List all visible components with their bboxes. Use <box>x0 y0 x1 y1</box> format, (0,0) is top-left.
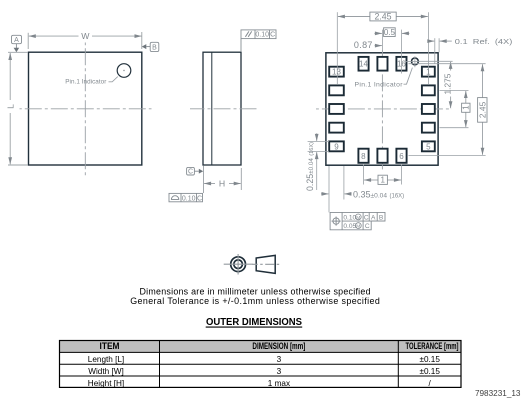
top-left extension line (square top edge) <box>8 51 28 53</box>
side view horizontal centerline <box>190 108 258 110</box>
drawing number 7983231_13 <box>475 389 521 398</box>
datum A symbol <box>12 35 22 52</box>
L dimension text <box>6 104 16 109</box>
pad 2 <box>422 85 435 95</box>
svg-text:TOLERANCE [mm]: TOLERANCE [mm] <box>406 341 459 351</box>
0.25 dimension arrows <box>316 133 318 190</box>
svg-text:L: L <box>6 104 16 109</box>
pad 15 <box>377 57 387 71</box>
0.87 dimension arrow <box>375 45 382 47</box>
svg-text:16: 16 <box>397 60 406 69</box>
datum C symbol <box>187 167 204 175</box>
svg-text:0.87: 0.87 <box>354 40 373 50</box>
top view horizontal centerline <box>20 108 152 110</box>
pad 5 <box>422 141 435 151</box>
svg-text:2.45: 2.45 <box>477 101 487 118</box>
bottom view package outline <box>326 53 438 165</box>
pad 14 <box>359 57 369 71</box>
svg-text:M: M <box>356 224 360 230</box>
svg-text:2.45: 2.45 <box>374 11 391 21</box>
svg-text:7983231_13: 7983231_13 <box>475 389 521 398</box>
1 horizontal dimension boxed text <box>378 175 387 185</box>
svg-text:W: W <box>81 31 90 41</box>
side view inner seam line <box>211 53 213 165</box>
1 vertical dimension line <box>465 91 467 127</box>
0.5 dimension arrows <box>374 32 409 34</box>
leader to pin 1 circle (top view) <box>109 77 118 82</box>
pad 10 <box>329 123 344 133</box>
svg-text:1: 1 <box>461 105 470 110</box>
svg-text:0.1 Ref. (4X): 0.1 Ref. (4X) <box>455 37 513 46</box>
svg-text:0.5: 0.5 <box>384 28 396 37</box>
svg-text:3: 3 <box>277 355 282 364</box>
position feature control frame <box>330 212 385 230</box>
svg-text:Pin.1 Indicator: Pin.1 Indicator <box>65 79 106 86</box>
bottom-left extension line (square bottom edge) <box>8 164 28 166</box>
svg-text:0.10: 0.10 <box>255 32 269 39</box>
third angle projection cone <box>252 255 279 273</box>
svg-text:0.35±0.04 (16X): 0.35±0.04 (16X) <box>353 189 404 199</box>
pad 1 <box>422 67 435 77</box>
pad number 5 <box>426 142 431 151</box>
svg-text:3: 3 <box>277 367 282 376</box>
svg-text:C: C <box>364 214 369 221</box>
note line 1 <box>140 286 371 296</box>
pin 1 indicator circle (top view) <box>117 64 131 78</box>
0.1 Ref extension lines <box>435 38 439 63</box>
pad 7 <box>377 149 387 163</box>
svg-text:0.25±0.04 (16X): 0.25±0.04 (16X) <box>305 142 315 191</box>
svg-text:ITEM: ITEM <box>100 341 120 351</box>
pad number 16 <box>397 60 406 69</box>
table title OUTER DIMENSIONS <box>206 317 303 328</box>
2.45 top dimension extension lines <box>337 12 428 84</box>
label Pin.1 Indicator (bottom view) <box>355 81 404 88</box>
svg-text:C: C <box>197 195 202 202</box>
svg-text:1 max: 1 max <box>268 379 290 388</box>
profile of surface feature control frame <box>169 193 203 202</box>
svg-text:9: 9 <box>334 142 339 151</box>
outer dimensions table <box>60 341 462 388</box>
svg-text:B: B <box>152 44 157 51</box>
W dimension line <box>29 35 142 37</box>
svg-text:B: B <box>379 214 384 221</box>
0.1 Ref. (4X) text <box>455 37 513 46</box>
pad 8 <box>358 149 368 163</box>
0.5 dimension boxed text <box>384 28 396 37</box>
svg-text:Dimensions are in millimeter u: Dimensions are in millimeter unless othe… <box>140 286 371 296</box>
bottom view vertical centerline <box>381 50 383 172</box>
svg-text:Width [W]: Width [W] <box>88 367 123 376</box>
1.275 dimension line <box>450 62 452 108</box>
0.25 dimension extension lines <box>308 142 329 152</box>
svg-text:6: 6 <box>399 152 404 161</box>
svg-text:1: 1 <box>426 68 431 77</box>
svg-text:±0.15: ±0.15 <box>419 367 440 376</box>
pad 13 <box>329 67 344 77</box>
svg-text:5: 5 <box>426 142 431 151</box>
pad 6 <box>396 149 406 163</box>
0.5 dimension extension line (package centerline) <box>381 30 383 53</box>
svg-text:0.05: 0.05 <box>343 223 356 230</box>
bottom view horizontal centerline <box>316 108 452 110</box>
svg-text:0.10: 0.10 <box>182 195 196 202</box>
svg-text:/: / <box>429 379 432 388</box>
svg-text:C: C <box>270 32 275 39</box>
pad 3 <box>422 104 435 114</box>
1 vertical dimension extension lines <box>440 90 469 127</box>
top view vertical centerline <box>84 43 86 176</box>
1.275 dimension text <box>442 73 452 94</box>
svg-text:8: 8 <box>361 152 366 161</box>
0.5 dimension extension line (pad 16 center) <box>401 30 403 74</box>
pad 4 <box>422 123 435 133</box>
svg-text:Pin.1 Indicator: Pin.1 Indicator <box>355 81 404 88</box>
H dimension text <box>219 179 225 189</box>
svg-text:A: A <box>14 37 19 44</box>
W dimension extension lines <box>28 32 142 49</box>
svg-text:1.275: 1.275 <box>442 73 452 94</box>
2.45 vertical dimension extension lines <box>409 64 486 156</box>
pad number 13 <box>332 68 341 77</box>
side view package outline <box>203 52 241 165</box>
1.275 dimension extension line <box>418 60 452 62</box>
svg-text:1: 1 <box>380 176 385 185</box>
0.35 dimension arrows <box>321 193 352 195</box>
2.45 top dimension line <box>338 16 428 18</box>
pad 16 <box>396 57 406 71</box>
pad number 9 <box>334 142 339 151</box>
parallelism feature control frame <box>241 30 276 39</box>
note line 2 <box>130 296 380 306</box>
svg-text:M: M <box>356 215 360 221</box>
H dimension line <box>204 183 241 185</box>
label Pin.1 Indicator (top view) <box>65 79 106 86</box>
pad number 14 <box>359 60 368 69</box>
1 horizontal dimension extension lines (bottom row) <box>364 165 402 185</box>
svg-text:C: C <box>365 223 370 230</box>
1 horizontal dimension line <box>364 179 401 181</box>
L dimension line <box>9 53 11 164</box>
0.1 Ref arrows <box>428 40 452 42</box>
2.45 top dimension boxed text <box>370 11 396 21</box>
0.25±0.04 (16X) dimension text <box>305 142 315 191</box>
0.35±0.04 (16X) dimension text <box>353 189 404 199</box>
datum B symbol <box>142 42 159 51</box>
2.45 vertical dimension line <box>482 64 484 155</box>
svg-text:H: H <box>219 179 225 189</box>
svg-text:Length [L]: Length [L] <box>88 355 124 364</box>
svg-text:DIMENSION [mm]: DIMENSION [mm] <box>252 341 305 351</box>
pin 1 indicator circle (bottom view) <box>406 56 420 67</box>
0.87 dimension text <box>354 40 373 50</box>
H dimension extension lines <box>204 166 242 193</box>
2.45 vertical dimension boxed text <box>477 98 487 123</box>
third angle projection circles <box>224 254 253 275</box>
svg-text:C: C <box>188 169 193 176</box>
leader to pin 1 indicator (bottom view) <box>404 68 413 85</box>
pad 9 <box>329 141 344 151</box>
W dimension text <box>81 31 90 41</box>
svg-text:13: 13 <box>332 68 341 77</box>
svg-text:0.10: 0.10 <box>343 214 356 221</box>
top view package outline <box>29 52 142 165</box>
pad 12 <box>329 85 344 95</box>
pad number 1 <box>426 68 431 77</box>
svg-text:±0.15: ±0.15 <box>419 355 440 364</box>
parallelism frame leader <box>240 39 242 52</box>
svg-text:14: 14 <box>359 60 368 69</box>
1 vertical dimension boxed text <box>461 103 470 112</box>
pad number 8 <box>361 152 366 161</box>
svg-text:A: A <box>371 214 376 221</box>
0.35 dimension extension lines <box>329 166 344 212</box>
svg-text:General Tolerance is +/-0.1mm: General Tolerance is +/-0.1mm unless oth… <box>130 296 380 306</box>
pad number 6 <box>399 152 404 161</box>
svg-text:Height [H]: Height [H] <box>88 379 124 388</box>
pad 11 <box>329 104 344 114</box>
